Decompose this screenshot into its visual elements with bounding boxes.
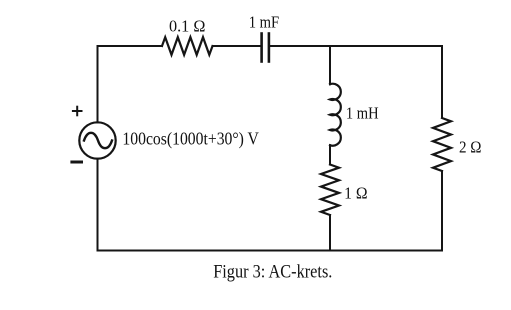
- svg-text:0.1 Ω: 0.1 Ω: [169, 16, 205, 35]
- AC source V1 circle: [79, 122, 115, 158]
- source minus terminal mark: [72, 161, 82, 164]
- wire left bottom (source bottom lead): [97, 159, 99, 251]
- wire resistor to capacitor: [213, 45, 262, 47]
- svg-text:2 Ω: 2 Ω: [459, 138, 482, 157]
- source plus terminal mark: [73, 107, 82, 116]
- wire middle branch bottom: [329, 215, 331, 251]
- svg-text:1 mF: 1 mF: [249, 13, 280, 32]
- inductor L1 1 mH: [330, 84, 341, 146]
- wire right top: [441, 46, 443, 118]
- wire inductor to resistor: [329, 145, 331, 164]
- wire right bottom: [441, 171, 443, 251]
- wire capacitor to top-right corner: [269, 45, 442, 47]
- capacitor C1 1 mF plates: [262, 34, 269, 62]
- resistor R2 1 ohm: [321, 165, 339, 216]
- svg-text:Figur 3: AC-krets.: Figur 3: AC-krets.: [213, 262, 332, 283]
- wire middle branch top: [329, 46, 331, 84]
- svg-text:1 mH: 1 mH: [346, 104, 379, 123]
- AC source sine wave: [84, 133, 112, 148]
- svg-text:100cos(1000t+30°) V: 100cos(1000t+30°) V: [122, 129, 259, 150]
- svg-text:1 Ω: 1 Ω: [344, 183, 368, 202]
- resistor R3 2 ohm: [433, 118, 451, 171]
- resistor R1 0.1 ohm: [162, 37, 213, 55]
- wire left top (source top lead): [97, 46, 99, 122]
- wire top-left horizontal: [98, 45, 163, 47]
- wire bottom horizontal: [98, 250, 443, 252]
